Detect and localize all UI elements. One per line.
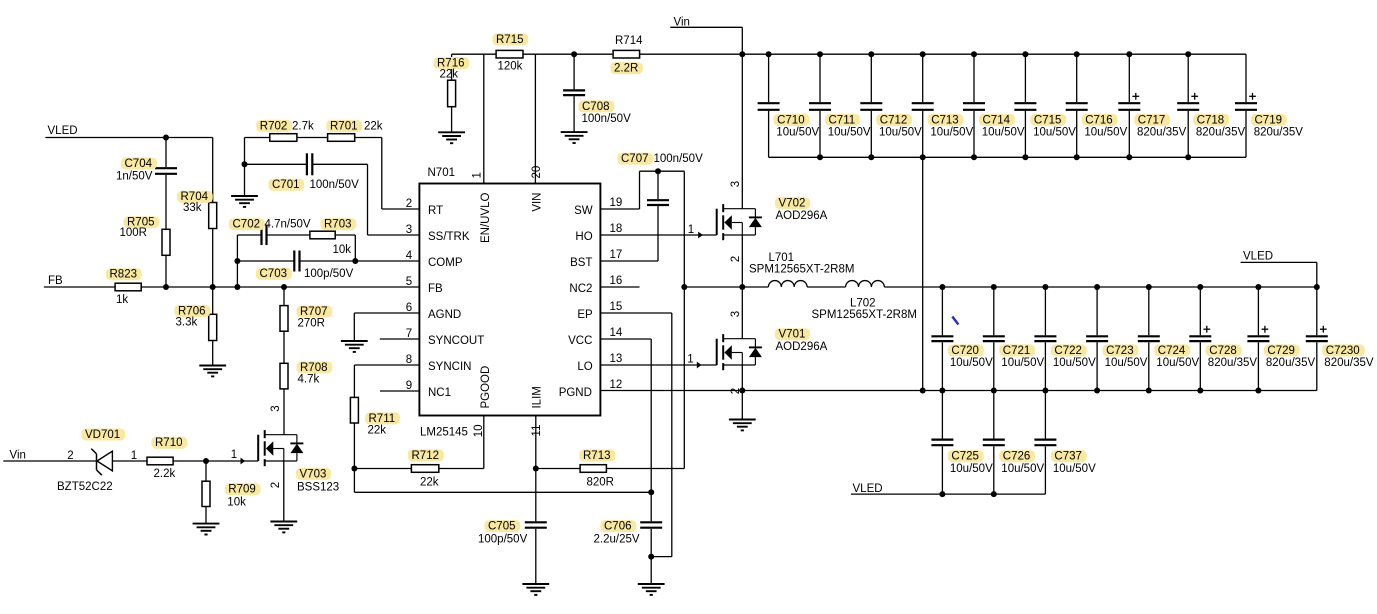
svg-text:C718: C718: [1197, 114, 1225, 126]
svg-text:2: 2: [270, 482, 282, 488]
svg-text:8: 8: [406, 354, 412, 366]
svg-text:NC1: NC1: [428, 387, 451, 399]
svg-text:3: 3: [730, 311, 742, 317]
svg-text:10u/50V: 10u/50V: [982, 127, 1025, 139]
svg-text:EN/UVLO: EN/UVLO: [480, 192, 492, 243]
svg-text:3: 3: [270, 405, 282, 411]
svg-text:100n/50V: 100n/50V: [654, 153, 704, 165]
svg-text:10u/50V: 10u/50V: [1033, 127, 1076, 139]
svg-text:4.7k: 4.7k: [298, 374, 320, 386]
svg-text:LO: LO: [577, 361, 592, 373]
svg-text:100n/50V: 100n/50V: [582, 113, 632, 125]
svg-text:820u/35V: 820u/35V: [1137, 127, 1187, 139]
svg-text:C704: C704: [125, 158, 153, 170]
svg-text:L702: L702: [850, 297, 876, 309]
svg-text:10u/50V: 10u/50V: [879, 127, 922, 139]
svg-text:C714: C714: [983, 114, 1011, 126]
svg-text:120k: 120k: [498, 60, 523, 72]
svg-text:AGND: AGND: [428, 309, 461, 321]
svg-text:10u/50V: 10u/50V: [1053, 357, 1096, 369]
svg-text:10u/50V: 10u/50V: [1001, 463, 1044, 475]
svg-text:R708: R708: [300, 362, 328, 374]
svg-text:10u/50V: 10u/50V: [776, 127, 819, 139]
svg-text:Vin: Vin: [674, 17, 690, 29]
svg-text:9: 9: [406, 380, 412, 392]
svg-text:R712: R712: [412, 450, 440, 462]
svg-text:10u/50V: 10u/50V: [1105, 357, 1148, 369]
svg-text:33k: 33k: [183, 202, 202, 214]
svg-text:PGOOD: PGOOD: [480, 366, 492, 409]
svg-text:HO: HO: [575, 231, 592, 243]
svg-text:10u/50V: 10u/50V: [1053, 463, 1096, 475]
svg-text:C728: C728: [1209, 345, 1237, 357]
svg-text:R707: R707: [300, 306, 328, 318]
svg-text:10u/50V: 10u/50V: [1156, 357, 1199, 369]
svg-text:4: 4: [406, 250, 413, 262]
svg-text:C712: C712: [880, 114, 908, 126]
svg-text:VLED: VLED: [1243, 250, 1273, 262]
svg-text:VCC: VCC: [568, 335, 592, 347]
svg-text:C720: C720: [951, 345, 979, 357]
svg-text:C708: C708: [582, 101, 610, 113]
svg-text:820u/35V: 820u/35V: [1324, 357, 1374, 369]
svg-text:19: 19: [610, 197, 623, 209]
svg-text:BST: BST: [570, 257, 592, 269]
svg-text:1: 1: [472, 172, 484, 178]
svg-text:C737: C737: [1054, 451, 1082, 463]
svg-text:C726: C726: [1003, 451, 1031, 463]
svg-text:5: 5: [406, 276, 412, 288]
svg-text:C715: C715: [1034, 114, 1062, 126]
svg-text:820R: 820R: [587, 477, 615, 489]
svg-text:1k: 1k: [116, 294, 128, 306]
svg-text:1: 1: [687, 354, 693, 366]
svg-text:3: 3: [730, 181, 742, 187]
svg-text:PGND: PGND: [559, 387, 592, 399]
svg-text:C722: C722: [1054, 345, 1082, 357]
svg-text:13: 13: [610, 353, 623, 365]
svg-text:C713: C713: [931, 114, 959, 126]
svg-text:VIN: VIN: [531, 193, 543, 212]
svg-text:C702: C702: [233, 219, 261, 231]
svg-text:10k: 10k: [333, 244, 352, 256]
svg-text:ILIM: ILIM: [531, 386, 543, 408]
svg-text:BSS123: BSS123: [297, 482, 339, 494]
svg-text:3: 3: [406, 224, 412, 236]
svg-text:820u/35V: 820u/35V: [1196, 127, 1246, 139]
svg-text:3.3k: 3.3k: [176, 316, 198, 328]
svg-text:11: 11: [531, 425, 543, 437]
svg-text:10u/50V: 10u/50V: [950, 357, 993, 369]
svg-text:L701: L701: [769, 252, 795, 264]
svg-text:SYNCIN: SYNCIN: [428, 361, 471, 373]
svg-text:SS/TRK: SS/TRK: [428, 231, 470, 243]
svg-text:FB: FB: [48, 275, 63, 287]
svg-text:7: 7: [406, 328, 412, 340]
svg-text:R823: R823: [110, 269, 138, 281]
svg-text:2.7k: 2.7k: [292, 120, 314, 132]
svg-text:C724: C724: [1158, 345, 1186, 357]
svg-text:1: 1: [131, 450, 137, 462]
svg-text:N701: N701: [428, 167, 456, 179]
svg-text:22k: 22k: [440, 68, 459, 80]
svg-text:2: 2: [730, 388, 742, 394]
svg-text:100p/50V: 100p/50V: [304, 268, 354, 280]
svg-text:C706: C706: [604, 521, 632, 533]
svg-text:VLED: VLED: [853, 483, 883, 495]
svg-text:1: 1: [688, 224, 694, 236]
svg-text:SW: SW: [574, 205, 593, 217]
svg-text:COMP: COMP: [428, 257, 463, 269]
svg-text:R710: R710: [155, 437, 183, 449]
svg-text:2.2u/25V: 2.2u/25V: [594, 534, 640, 546]
svg-text:2.2R: 2.2R: [614, 63, 638, 75]
svg-text:14: 14: [610, 327, 623, 339]
svg-text:R703: R703: [324, 219, 352, 231]
svg-text:NC2: NC2: [569, 283, 592, 295]
svg-text:VD701: VD701: [85, 429, 120, 441]
svg-text:820u/35V: 820u/35V: [1266, 357, 1316, 369]
svg-text:100R: 100R: [120, 227, 148, 239]
svg-text:10u/50V: 10u/50V: [930, 127, 973, 139]
svg-text:RT: RT: [428, 205, 443, 217]
svg-text:22k: 22k: [368, 425, 387, 437]
svg-text:C701: C701: [272, 179, 300, 191]
svg-text:V701: V701: [779, 329, 806, 341]
svg-text:10k: 10k: [227, 497, 246, 509]
svg-text:SPM12565XT-2R8M: SPM12565XT-2R8M: [812, 309, 917, 321]
svg-text:1: 1: [231, 449, 237, 461]
svg-text:2: 2: [406, 198, 412, 210]
svg-text:C703: C703: [260, 268, 288, 280]
svg-text:2.2k: 2.2k: [154, 468, 176, 480]
svg-text:270R: 270R: [298, 318, 326, 330]
svg-text:10u/50V: 10u/50V: [950, 463, 993, 475]
svg-text:C711: C711: [829, 114, 856, 126]
svg-text:LM25145: LM25145: [420, 426, 468, 438]
svg-text:4.7n/50V: 4.7n/50V: [265, 219, 311, 231]
svg-text:AOD296A: AOD296A: [776, 210, 828, 222]
svg-text:17: 17: [610, 249, 623, 261]
svg-text:16: 16: [610, 275, 623, 287]
svg-text:820u/35V: 820u/35V: [1254, 127, 1304, 139]
svg-text:R715: R715: [496, 34, 524, 46]
svg-text:C710: C710: [777, 114, 805, 126]
svg-text:10u/50V: 10u/50V: [1084, 127, 1127, 139]
svg-text:SPM12565XT-2R8M: SPM12565XT-2R8M: [749, 263, 854, 275]
svg-text:2: 2: [730, 256, 742, 262]
svg-text:BZT52C22: BZT52C22: [57, 481, 113, 493]
svg-text:C707: C707: [621, 153, 649, 165]
svg-text:C7230: C7230: [1326, 345, 1360, 357]
svg-text:100p/50V: 100p/50V: [478, 534, 528, 546]
svg-text:VLED: VLED: [48, 125, 78, 137]
svg-text:15: 15: [610, 301, 623, 313]
svg-text:10u/50V: 10u/50V: [828, 127, 871, 139]
svg-text:10: 10: [473, 425, 485, 438]
svg-text:2: 2: [67, 450, 73, 462]
svg-text:18: 18: [610, 223, 623, 235]
svg-text:R713: R713: [583, 450, 611, 462]
svg-text:R709: R709: [228, 484, 256, 496]
svg-text:12: 12: [610, 379, 623, 391]
svg-text:10u/50V: 10u/50V: [1001, 357, 1044, 369]
svg-text:820u/35V: 820u/35V: [1208, 357, 1258, 369]
svg-text:V703: V703: [300, 468, 327, 480]
svg-text:EP: EP: [577, 309, 593, 321]
svg-text:FB: FB: [428, 283, 443, 295]
svg-text:Vin: Vin: [10, 449, 26, 461]
svg-text:20: 20: [531, 166, 543, 179]
svg-text:R701: R701: [330, 120, 358, 132]
svg-text:C705: C705: [488, 521, 516, 533]
svg-text:V702: V702: [779, 198, 806, 210]
svg-text:22k: 22k: [364, 120, 383, 132]
svg-text:1n/50V: 1n/50V: [116, 171, 153, 183]
svg-text:C729: C729: [1267, 345, 1295, 357]
svg-text:R702: R702: [260, 120, 288, 132]
svg-text:R714: R714: [615, 35, 643, 47]
svg-text:AOD296A: AOD296A: [776, 341, 828, 353]
svg-text:C721: C721: [1003, 345, 1031, 357]
svg-text:6: 6: [406, 302, 412, 314]
svg-text:C717: C717: [1138, 114, 1166, 126]
svg-text:C719: C719: [1255, 114, 1283, 126]
svg-text:C716: C716: [1085, 114, 1113, 126]
svg-text:C723: C723: [1106, 345, 1134, 357]
svg-text:C725: C725: [951, 451, 979, 463]
svg-text:SYNCOUT: SYNCOUT: [428, 335, 484, 347]
svg-text:R711: R711: [369, 413, 396, 425]
svg-text:100n/50V: 100n/50V: [310, 179, 360, 191]
svg-text:22k: 22k: [420, 477, 439, 489]
